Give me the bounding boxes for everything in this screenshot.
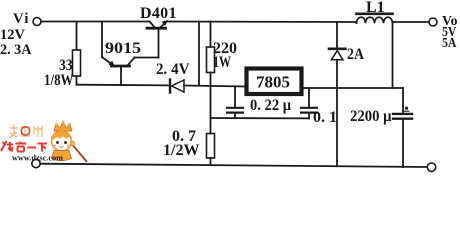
label 5V [442, 25, 457, 40]
label Vi [13, 11, 30, 27]
orange slogan strokes [9, 125, 42, 138]
svg-text:L1: L1 [366, 0, 385, 16]
resistor 33 lead top [76, 22, 78, 51]
svg-text:0. 1: 0. 1 [313, 109, 337, 126]
svg-text:D401: D401 [140, 5, 177, 22]
svg-text:12V: 12V [0, 27, 26, 43]
label 7805 [256, 73, 290, 92]
label 220 [213, 40, 237, 57]
input terminal Vi [33, 18, 41, 26]
resistor 0.7 body [207, 134, 215, 159]
wire ground net under 7805 [211, 117, 310, 119]
label 0.22u [250, 97, 291, 114]
IC 7805 box [247, 69, 302, 95]
wire L1 right drop [392, 22, 394, 88]
label 2.3A [0, 42, 32, 58]
svg-text:2. 3A: 2. 3A [0, 42, 32, 58]
capacitor 0.22u [227, 86, 243, 118]
wire vertical x199 [198, 22, 200, 86]
svg-text:www.dzsc.com: www.dzsc.com [12, 154, 63, 163]
mascot head [52, 131, 72, 151]
label 5A [442, 36, 457, 51]
svg-text:9015: 9015 [105, 40, 141, 57]
red brand strokes 维库一下 [1, 141, 47, 152]
svg-text:2. 4V: 2. 4V [156, 61, 190, 78]
wire 220 to junction [210, 73, 212, 119]
label 1/8W [44, 72, 74, 89]
svg-text:1W: 1W [213, 54, 231, 71]
diode 2.4V [170, 80, 184, 93]
label 9015 [105, 40, 141, 57]
capacitor 2200u electrolytic [393, 88, 412, 167]
label 0.1 [313, 109, 337, 126]
ground terminal bottom left [32, 159, 40, 167]
resistor 220 lead top [210, 22, 212, 48]
label 2A [347, 46, 364, 63]
mascot crown [54, 121, 72, 132]
label 2.4V [156, 61, 190, 78]
output terminal Vo [429, 18, 437, 26]
label 1W [213, 54, 231, 71]
resistor 0.7 leads [210, 118, 212, 165]
resistor 33 body [73, 50, 81, 76]
svg-text:Vi: Vi [13, 11, 30, 27]
inductor L1 [357, 14, 393, 23]
label 0.7 [172, 128, 196, 145]
wire 7805 output [302, 87, 404, 89]
svg-text:2A: 2A [347, 46, 364, 63]
wire bottom rail [40, 164, 427, 167]
svg-text:5A: 5A [442, 36, 457, 51]
transistor 9015 [102, 57, 159, 85]
wire top rail left [41, 21, 150, 23]
wire mid horizontal right [184, 86, 245, 87]
wire 9015 emitter drop [101, 22, 103, 58]
label 33 [59, 57, 73, 74]
svg-text:1/2W: 1/2W [163, 142, 199, 159]
transistor D401 [147, 20, 168, 57]
diode 2A [329, 22, 346, 166]
mascot body and arm [52, 141, 88, 162]
resistor 33 lead bottom [76, 76, 78, 85]
label D401 [140, 5, 177, 22]
ground terminal bottom right [427, 163, 435, 171]
svg-text:2200 μ: 2200 μ [350, 108, 392, 125]
watermark dzsc.com logo [1, 121, 87, 163]
label 12V [0, 27, 26, 43]
svg-text:0. 22 μ: 0. 22 μ [250, 97, 291, 114]
svg-text:7805: 7805 [256, 73, 290, 92]
label L1 [366, 0, 385, 16]
label 2200u [350, 108, 392, 125]
resistor 220 body [207, 47, 215, 73]
label Vo [442, 14, 458, 29]
wire mid horizontal left [77, 84, 171, 87]
url text [12, 154, 63, 163]
label 1/2W [163, 142, 199, 159]
wire top rail to output [393, 21, 430, 23]
svg-text:1/8W: 1/8W [44, 72, 74, 89]
wire top rail middle [167, 21, 357, 24]
capacitor 0.1 [301, 88, 317, 118]
orange slogan red accent [21, 127, 29, 135]
